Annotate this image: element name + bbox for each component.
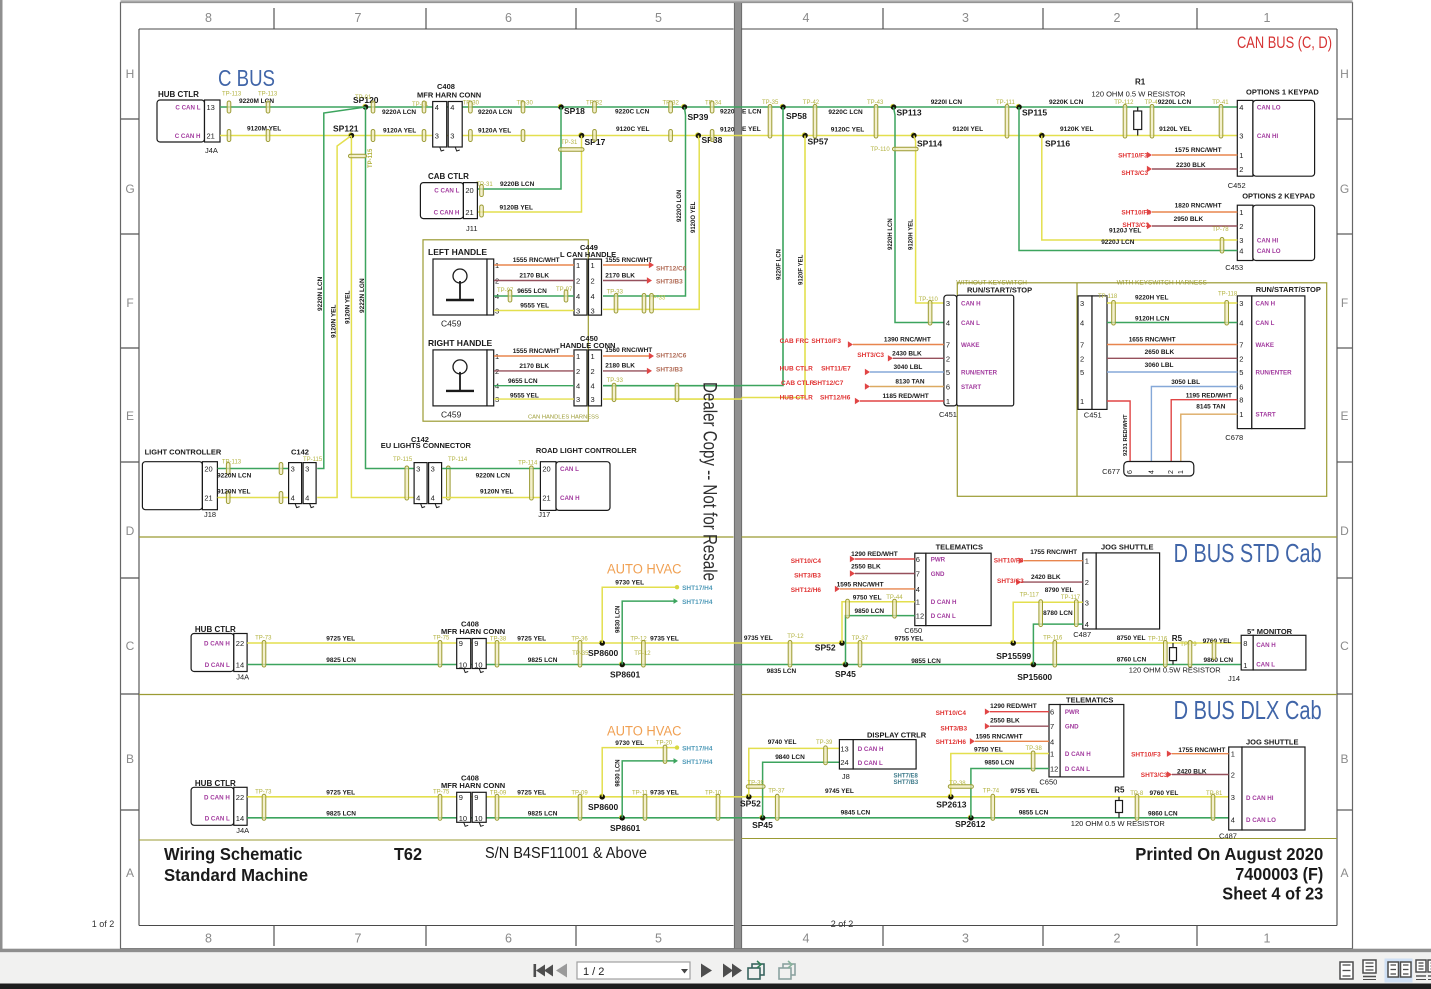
svg-text:2: 2 [1114, 932, 1121, 946]
svg-text:TP-114: TP-114 [518, 460, 538, 466]
svg-text:RUN/ENTER: RUN/ENTER [1256, 370, 1293, 377]
svg-text:2950 BLK: 2950 BLK [1174, 216, 1204, 223]
svg-text:SHT11/E7: SHT11/E7 [821, 366, 851, 373]
svg-text:B: B [126, 752, 134, 766]
svg-text:22: 22 [236, 793, 244, 802]
svg-text:21: 21 [204, 494, 212, 503]
svg-text:SP58: SP58 [786, 111, 807, 121]
svg-text:9735 YEL: 9735 YEL [744, 635, 773, 642]
svg-text:CAB CTLR: CAB CTLR [428, 172, 469, 181]
svg-text:GND: GND [1065, 724, 1079, 731]
svg-text:9120N YEL: 9120N YEL [217, 489, 251, 496]
svg-text:J18: J18 [204, 510, 216, 519]
svg-text:9220B LCN: 9220B LCN [500, 181, 535, 188]
svg-text:2: 2 [591, 277, 595, 286]
svg-text:TP-74: TP-74 [983, 789, 1000, 795]
svg-text:5" MONITOR: 5" MONITOR [1247, 627, 1293, 636]
svg-text:HUB CTLR: HUB CTLR [780, 395, 814, 402]
svg-text:9855 LCN: 9855 LCN [911, 658, 941, 665]
svg-text:9220J LCN: 9220J LCN [1101, 239, 1135, 246]
svg-text:TP-37: TP-37 [768, 789, 785, 795]
svg-text:TP-35: TP-35 [572, 651, 589, 657]
svg-text:A: A [126, 866, 134, 880]
svg-text:TP-78: TP-78 [1212, 227, 1229, 233]
svg-text:9655 LCN: 9655 LCN [508, 378, 538, 385]
svg-text:TP-12: TP-12 [787, 634, 804, 640]
svg-text:R1: R1 [1135, 78, 1146, 87]
svg-text:SHT17/H4: SHT17/H4 [682, 746, 713, 753]
svg-text:4: 4 [576, 382, 580, 391]
svg-text:9735 YEL: 9735 YEL [650, 789, 679, 796]
svg-text:6: 6 [1127, 470, 1134, 474]
svg-text:SHT3/C3: SHT3/C3 [1121, 170, 1148, 177]
svg-text:2550 BLK: 2550 BLK [851, 564, 881, 571]
svg-text:6: 6 [505, 932, 512, 946]
svg-text:1755 RNC/WHT: 1755 RNC/WHT [1178, 747, 1225, 754]
svg-text:8: 8 [1239, 396, 1243, 405]
svg-text:9: 9 [459, 793, 463, 802]
svg-text:21: 21 [207, 132, 215, 141]
svg-text:C142: C142 [291, 448, 309, 457]
svg-text:LEFT HANDLE: LEFT HANDLE [428, 247, 487, 257]
svg-text:2170 BLK: 2170 BLK [519, 273, 549, 280]
svg-text:9120J YEL: 9120J YEL [1109, 228, 1141, 235]
svg-text:TP-38: TP-38 [949, 781, 966, 787]
svg-text:2: 2 [1239, 165, 1243, 174]
svg-text:SHT10/F3: SHT10/F3 [811, 338, 841, 345]
svg-text:MFR HARN CONN: MFR HARN CONN [417, 91, 481, 100]
svg-text:E: E [1340, 409, 1348, 423]
svg-text:TP-31: TP-31 [476, 182, 493, 188]
svg-text:RUN/START/STOP: RUN/START/STOP [1256, 285, 1321, 294]
svg-text:9745 YEL: 9745 YEL [825, 788, 854, 795]
svg-text:3: 3 [305, 465, 309, 474]
svg-text:D CAN H: D CAN H [1065, 751, 1091, 758]
svg-text:CAN L: CAN L [961, 320, 980, 327]
svg-text:CAN LO: CAN LO [1257, 248, 1281, 255]
svg-text:S/N B4SF11001 & Above: S/N B4SF11001 & Above [485, 845, 647, 862]
svg-text:MFR HARN CONN: MFR HARN CONN [441, 627, 505, 636]
svg-text:2180 BLK: 2180 BLK [605, 363, 635, 370]
svg-text:14: 14 [236, 814, 244, 823]
svg-text:3: 3 [435, 132, 439, 141]
svg-text:9840 LCN: 9840 LCN [775, 754, 805, 761]
svg-text:6: 6 [946, 383, 950, 392]
svg-text:9120: 9120 [720, 127, 735, 134]
svg-text:C453: C453 [1225, 263, 1243, 272]
svg-text:C650: C650 [1039, 778, 1057, 787]
svg-text:C451: C451 [939, 410, 957, 419]
svg-text:1560 RNC/WHT: 1560 RNC/WHT [605, 347, 652, 354]
svg-text:D CAN L: D CAN L [858, 760, 883, 767]
svg-text:9120N YEL: 9120N YEL [345, 290, 352, 324]
svg-text:TP-113: TP-113 [222, 460, 242, 466]
svg-text:9855 LCN: 9855 LCN [1019, 809, 1049, 816]
svg-text:SP45: SP45 [752, 820, 773, 830]
svg-text:9220C LCN: 9220C LCN [615, 109, 650, 116]
svg-text:SP8601: SP8601 [610, 670, 641, 680]
svg-text:9120N YEL: 9120N YEL [480, 489, 514, 496]
svg-text:9825 LCN: 9825 LCN [326, 810, 356, 817]
svg-text:CAN HI: CAN HI [1257, 238, 1279, 245]
svg-text:AUTO HVAC: AUTO HVAC [607, 724, 682, 739]
svg-text:21: 21 [542, 494, 550, 503]
svg-text:2: 2 [1231, 771, 1235, 780]
svg-text:SHT12/H6: SHT12/H6 [820, 395, 851, 402]
svg-text:9220I LCN: 9220I LCN [931, 99, 963, 106]
svg-text:9220C LCN: 9220C LCN [828, 109, 863, 116]
svg-text:D: D [126, 524, 135, 538]
svg-text:PWR: PWR [931, 557, 946, 564]
svg-text:9222N LGN: 9222N LGN [359, 278, 366, 313]
svg-text:TP-113: TP-113 [258, 92, 278, 98]
svg-text:8: 8 [205, 11, 212, 25]
svg-text:3060 LBL: 3060 LBL [1145, 362, 1174, 369]
svg-text:9655 LCN: 9655 LCN [517, 288, 547, 295]
svg-text:SP15600: SP15600 [1017, 672, 1052, 682]
svg-text:4: 4 [591, 292, 595, 301]
svg-text:D CAN H: D CAN H [204, 641, 230, 648]
svg-text:120 OHM 0.5 W RESISTOR: 120 OHM 0.5 W RESISTOR [1071, 819, 1166, 828]
svg-text:C650: C650 [904, 626, 922, 635]
svg-text:SHT3/B3: SHT3/B3 [940, 726, 967, 733]
svg-text:C487: C487 [1073, 630, 1091, 639]
svg-text:9120C YEL: 9120C YEL [831, 126, 865, 133]
svg-text:CAN H: CAN H [560, 495, 580, 502]
svg-text:A: A [1340, 866, 1348, 880]
svg-text:F: F [1341, 296, 1348, 310]
svg-text:9850 LCN: 9850 LCN [985, 760, 1015, 767]
svg-text:1555 RNC/WHT: 1555 RNC/WHT [513, 348, 560, 355]
svg-text:7: 7 [1080, 341, 1084, 350]
svg-text:9120A YEL: 9120A YEL [478, 128, 511, 135]
svg-text:4: 4 [1239, 319, 1243, 328]
svg-text:9845 LCN: 9845 LCN [841, 809, 871, 816]
svg-text:C CAN H: C CAN H [175, 133, 201, 140]
svg-text:2: 2 [576, 367, 580, 376]
svg-text:TP-118: TP-118 [1098, 294, 1118, 300]
svg-text:9120K YEL: 9120K YEL [1060, 126, 1094, 133]
svg-text:9220H LCN: 9220H LCN [888, 218, 894, 250]
svg-text:GND: GND [931, 571, 945, 578]
svg-text:1: 1 [576, 261, 580, 270]
svg-text:1290 RED/WHT: 1290 RED/WHT [990, 703, 1037, 710]
svg-text:1 / 2: 1 / 2 [583, 966, 604, 978]
svg-text:SP114: SP114 [917, 139, 942, 149]
svg-text:3: 3 [946, 299, 950, 308]
svg-text:9220K LCN: 9220K LCN [1049, 99, 1084, 106]
svg-text:7: 7 [1050, 722, 1054, 731]
svg-text:C459: C459 [441, 319, 462, 329]
svg-text:1: 1 [1239, 151, 1243, 160]
svg-text:SHT3/B3: SHT3/B3 [794, 572, 821, 579]
svg-text:JOG SHUTTLE: JOG SHUTTLE [1101, 543, 1154, 552]
svg-text:RUN/START/STOP: RUN/START/STOP [967, 286, 1032, 295]
svg-text:9860 LCN: 9860 LCN [1148, 811, 1178, 818]
svg-text:4: 4 [1231, 815, 1235, 824]
svg-text:3: 3 [1239, 132, 1243, 141]
svg-text:8780 LCN: 8780 LCN [1043, 610, 1073, 617]
svg-text:Sheet 4 of 23: Sheet 4 of 23 [1222, 884, 1323, 904]
svg-text:JOG SHUTTLE: JOG SHUTTLE [1246, 738, 1299, 747]
svg-text:SHT3/B3: SHT3/B3 [656, 279, 683, 286]
svg-text:9220N LCN: 9220N LCN [317, 276, 324, 311]
svg-text:2: 2 [576, 277, 580, 286]
svg-text:3: 3 [431, 465, 435, 474]
svg-text:3: 3 [450, 132, 454, 141]
svg-text:13: 13 [840, 744, 848, 753]
svg-text:D CAN HI: D CAN HI [1246, 795, 1274, 802]
svg-text:PWR: PWR [1065, 709, 1080, 716]
svg-text:9120A YEL: 9120A YEL [383, 128, 416, 135]
svg-text:3: 3 [1085, 598, 1089, 607]
svg-text:9825 LCN: 9825 LCN [326, 657, 356, 664]
svg-text:SHT3/C3: SHT3/C3 [857, 352, 884, 359]
svg-text:CAN L: CAN L [1256, 662, 1275, 669]
svg-text:SHT3/C3: SHT3/C3 [997, 578, 1024, 585]
svg-text:9760 YEL: 9760 YEL [1150, 790, 1179, 797]
svg-text:1: 1 [1264, 11, 1271, 25]
svg-text:J4A: J4A [205, 146, 218, 155]
svg-text:Wiring Schematic: Wiring Schematic [164, 844, 303, 864]
svg-text:5: 5 [655, 11, 662, 25]
svg-text:9220N LCN: 9220N LCN [476, 473, 511, 480]
svg-text:C487: C487 [1219, 832, 1237, 841]
svg-text:TP-115: TP-115 [368, 148, 374, 168]
svg-text:SP2612: SP2612 [955, 819, 986, 829]
svg-text:START: START [961, 384, 981, 391]
svg-text:Standard Machine: Standard Machine [164, 865, 308, 885]
svg-text:MFR HARN CONN: MFR HARN CONN [441, 781, 505, 790]
svg-text:14: 14 [236, 661, 244, 670]
svg-text:4: 4 [946, 319, 950, 328]
svg-text:4: 4 [1050, 737, 1054, 746]
svg-text:2420 BLK: 2420 BLK [1177, 769, 1207, 776]
svg-text:D BUS DLX Cab: D BUS DLX Cab [1174, 695, 1322, 725]
svg-text:4: 4 [305, 494, 309, 503]
svg-text:6: 6 [916, 555, 920, 564]
svg-text:2230 BLK: 2230 BLK [1176, 162, 1206, 169]
svg-text:HUB CTLR: HUB CTLR [195, 625, 236, 634]
svg-text:8: 8 [1243, 639, 1247, 648]
svg-text:CAN HANDLES HARNESS: CAN HANDLES HARNESS [528, 415, 599, 421]
svg-text:4: 4 [803, 932, 810, 946]
svg-text:9120N YEL: 9120N YEL [330, 304, 337, 338]
svg-text:C CAN L: C CAN L [434, 188, 459, 195]
svg-text:SP8600: SP8600 [588, 802, 619, 812]
svg-text:2430 BLK: 2430 BLK [892, 350, 922, 357]
svg-text:J11: J11 [466, 224, 478, 233]
svg-text:6: 6 [1239, 383, 1243, 392]
svg-text:3: 3 [576, 307, 580, 316]
svg-text:3: 3 [1231, 793, 1235, 802]
svg-text:2550 BLK: 2550 BLK [990, 717, 1020, 724]
svg-text:C: C [1340, 639, 1349, 653]
svg-text:CAN BUS (C, D): CAN BUS (C, D) [1237, 34, 1332, 52]
svg-text:1: 1 [1239, 208, 1243, 217]
svg-text:9120O YEL: 9120O YEL [691, 201, 697, 233]
svg-text:3: 3 [1080, 299, 1084, 308]
svg-text:HUB CTLR: HUB CTLR [195, 779, 236, 788]
svg-text:SHT12/C7: SHT12/C7 [813, 380, 844, 387]
svg-text:TP-114: TP-114 [448, 457, 468, 463]
svg-text:9850 LCN: 9850 LCN [855, 608, 885, 615]
svg-text:4: 4 [1085, 620, 1089, 629]
svg-text:1: 1 [946, 397, 950, 406]
svg-text:4: 4 [1239, 103, 1243, 112]
svg-text:9755 YEL: 9755 YEL [1010, 788, 1039, 795]
svg-text:SP52: SP52 [815, 643, 836, 653]
svg-text:TP-116: TP-116 [1043, 636, 1063, 642]
svg-text:9231 RED/WHT: 9231 RED/WHT [1123, 414, 1129, 456]
svg-text:1: 1 [1239, 410, 1243, 419]
svg-text:EU LIGHTS CONNECTOR: EU LIGHTS CONNECTOR [381, 441, 472, 450]
svg-text:D BUS STD Cab: D BUS STD Cab [1174, 538, 1322, 568]
svg-text:9740 YEL: 9740 YEL [768, 739, 797, 746]
svg-text:J8: J8 [842, 772, 850, 781]
svg-text:22: 22 [236, 639, 244, 648]
svg-text:SHT12/C6: SHT12/C6 [656, 265, 687, 272]
svg-text:5: 5 [1239, 368, 1243, 377]
svg-text:7: 7 [946, 341, 950, 350]
svg-text:G: G [125, 182, 134, 196]
svg-text:DISPLAY CTRLR: DISPLAY CTRLR [867, 731, 927, 740]
svg-text:9220F LCN: 9220F LCN [777, 249, 783, 280]
svg-text:SHT7/B3: SHT7/B3 [894, 780, 919, 786]
svg-text:9750 YEL: 9750 YEL [853, 595, 882, 602]
svg-text:2170 BLK: 2170 BLK [519, 363, 549, 370]
svg-text:C452: C452 [1228, 181, 1246, 190]
svg-text:E LCN: E LCN [742, 109, 762, 116]
svg-text:1820 RNC/WHT: 1820 RNC/WHT [1175, 203, 1222, 210]
svg-text:H: H [1340, 67, 1349, 81]
svg-text:RIGHT HANDLE: RIGHT HANDLE [428, 338, 493, 348]
svg-text:20: 20 [204, 465, 212, 474]
svg-text:D CAN H: D CAN H [204, 794, 230, 801]
svg-text:TP-31: TP-31 [561, 140, 578, 146]
svg-text:TP-01: TP-01 [355, 95, 372, 101]
svg-text:9220A LCN: 9220A LCN [382, 109, 416, 116]
svg-text:1: 1 [1085, 557, 1089, 566]
svg-text:1: 1 [1264, 932, 1271, 946]
svg-text:4: 4 [450, 103, 454, 112]
svg-text:SP2613: SP2613 [936, 800, 967, 810]
svg-text:WAKE: WAKE [1256, 342, 1275, 349]
svg-text:20: 20 [542, 465, 550, 474]
svg-text:9750 YEL: 9750 YEL [974, 746, 1003, 753]
svg-text:1655 RNC/WHT: 1655 RNC/WHT [1129, 337, 1176, 344]
svg-text:9120C YEL: 9120C YEL [616, 126, 650, 133]
svg-text:12: 12 [916, 612, 924, 621]
svg-text:5: 5 [1080, 368, 1084, 377]
svg-text:9860 LCN: 9860 LCN [1204, 657, 1234, 664]
svg-text:9725 YEL: 9725 YEL [517, 789, 546, 796]
svg-text:D CAN LO: D CAN LO [1246, 817, 1276, 824]
svg-text:1: 1 [591, 352, 595, 361]
svg-text:SP18: SP18 [564, 106, 585, 116]
svg-text:120 OHM 0.5 W RESISTOR: 120 OHM 0.5 W RESISTOR [1092, 90, 1187, 99]
svg-text:6: 6 [1050, 708, 1054, 717]
svg-text:3: 3 [591, 307, 595, 316]
svg-text:SP8600: SP8600 [588, 648, 619, 658]
svg-text:TP-12: TP-12 [634, 651, 651, 657]
svg-text:C451: C451 [1084, 411, 1102, 420]
svg-text:4: 4 [916, 585, 920, 594]
svg-text:CAN L: CAN L [1256, 320, 1275, 327]
svg-text:SHT10/F3: SHT10/F3 [1131, 752, 1161, 759]
svg-text:2420 BLK: 2420 BLK [1031, 574, 1061, 581]
svg-text:TP-117: TP-117 [1020, 593, 1040, 599]
svg-text:SHT3/C3: SHT3/C3 [1141, 772, 1168, 779]
svg-text:7: 7 [916, 570, 920, 579]
svg-text:9730 YEL: 9730 YEL [615, 740, 644, 747]
svg-text:C677: C677 [1102, 467, 1120, 476]
svg-text:SHT10/C4: SHT10/C4 [936, 710, 967, 717]
svg-text:SHT10/F3: SHT10/F3 [994, 558, 1024, 565]
svg-text:TELEMATICS: TELEMATICS [1066, 696, 1113, 705]
svg-text:9830 LCN: 9830 LCN [616, 759, 622, 786]
svg-text:7400003 (F): 7400003 (F) [1235, 864, 1323, 884]
svg-text:1 of 2: 1 of 2 [92, 919, 115, 929]
svg-text:SHT12/C6: SHT12/C6 [656, 353, 687, 360]
svg-text:9220O LGN: 9220O LGN [677, 190, 683, 222]
svg-text:J17: J17 [538, 510, 550, 519]
svg-text:9725 YEL: 9725 YEL [326, 636, 355, 643]
svg-text:1595 RNC/WHT: 1595 RNC/WHT [976, 733, 1023, 740]
svg-text:10: 10 [474, 814, 482, 823]
svg-text:9755 YEL: 9755 YEL [895, 636, 924, 643]
svg-text:D CAN L: D CAN L [205, 815, 230, 822]
svg-text:8145 TAN: 8145 TAN [1196, 403, 1225, 410]
svg-text:2170 BLK: 2170 BLK [605, 273, 635, 280]
svg-text:9120F YEL: 9120F YEL [799, 254, 805, 285]
svg-text:TP-110: TP-110 [871, 147, 891, 153]
svg-text:1195 RED/WHT: 1195 RED/WHT [1186, 392, 1232, 399]
svg-text:SHT17/H4: SHT17/H4 [682, 585, 713, 592]
svg-text:3: 3 [591, 395, 595, 404]
svg-text:1: 1 [1231, 750, 1235, 759]
svg-text:9835 LCN: 9835 LCN [767, 668, 797, 675]
svg-text:8750 YEL: 8750 YEL [1117, 635, 1146, 642]
svg-text:D: D [1340, 524, 1349, 538]
svg-text:9: 9 [459, 639, 463, 648]
svg-text:1: 1 [1050, 750, 1054, 759]
svg-text:Printed On August 2020: Printed On August 2020 [1135, 844, 1323, 864]
svg-text:4: 4 [431, 494, 435, 503]
svg-text:SHT3/B3: SHT3/B3 [656, 367, 683, 374]
svg-text:2: 2 [1085, 578, 1089, 587]
svg-text:10: 10 [459, 814, 467, 823]
svg-text:TP-39: TP-39 [816, 740, 833, 746]
svg-text:TP-115: TP-115 [393, 457, 413, 463]
svg-text:C CAN L: C CAN L [175, 105, 200, 112]
svg-text:R5: R5 [1114, 785, 1125, 794]
svg-text:4: 4 [416, 494, 420, 503]
svg-text:9555 YEL: 9555 YEL [510, 393, 539, 400]
svg-text:9825 LCN: 9825 LCN [528, 657, 558, 664]
svg-text:3: 3 [1239, 236, 1243, 245]
svg-text:8: 8 [205, 932, 212, 946]
svg-text:8790 YEL: 8790 YEL [1045, 587, 1074, 594]
svg-text:9120H YEL: 9120H YEL [909, 219, 915, 250]
svg-text:1: 1 [1080, 397, 1084, 406]
svg-text:CAN HI: CAN HI [1257, 133, 1279, 140]
svg-text:SP45: SP45 [835, 669, 856, 679]
svg-text:CAB CTLR: CAB CTLR [781, 380, 815, 387]
svg-text:1555 RNC/WHT: 1555 RNC/WHT [513, 257, 560, 264]
svg-text:RUN/ENTER: RUN/ENTER [961, 370, 998, 377]
svg-text:9730 YEL: 9730 YEL [615, 580, 644, 587]
